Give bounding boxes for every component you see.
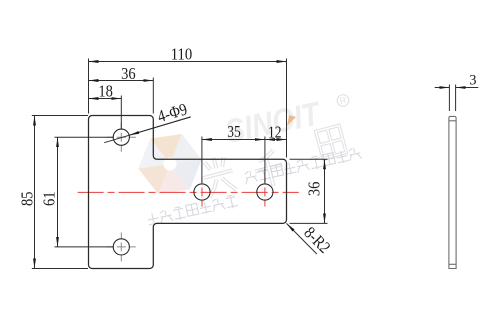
dimension 3 side view: [435, 85, 479, 112]
dimension 36 top: [89, 78, 154, 114]
watermark logo orange accent: [287, 115, 296, 126]
svg-text:61: 61: [40, 192, 59, 207]
watermark registered mark: [336, 94, 350, 108]
red crosshair hole right-1: [201, 178, 203, 207]
dimension 85: [32, 116, 88, 269]
grey crosshair hole top-left: [107, 123, 136, 152]
red crosshair hole right-2: [264, 178, 266, 207]
hole right-1: [194, 184, 210, 200]
svg-text:4-Φ9: 4-Φ9: [155, 99, 189, 126]
watermark slogan small text part 1 (pseudo-glyph strokes): [146, 195, 238, 227]
hole top-left: [113, 129, 129, 145]
watermark chinese char xing (outlined strokes): [199, 154, 238, 198]
watermark slogan small text part 2 (pseudo-glyph strokes): [243, 147, 361, 185]
svg-text:36: 36: [121, 64, 136, 83]
svg-text:110: 110: [171, 44, 193, 63]
dimension 61: [55, 137, 114, 247]
leader 4-phi9: [104, 117, 191, 143]
watermark chinese char tian (outlined strokes): [316, 125, 346, 158]
svg-text:8-R2: 8-R2: [300, 223, 334, 257]
dimension 35: [202, 137, 265, 184]
dimension 18: [89, 96, 122, 129]
watermark logo pinwheel: [134, 132, 205, 196]
svg-text:R: R: [339, 95, 348, 106]
dimension 36 right: [290, 159, 328, 223]
svg-text:12: 12: [268, 123, 282, 142]
dimension 12: [265, 139, 287, 141]
plate outline: [89, 116, 287, 269]
svg-text:35: 35: [227, 122, 241, 141]
watermark big text SINOIT: [222, 94, 325, 150]
dimension 110: [89, 59, 287, 158]
svg-text:3: 3: [469, 72, 476, 88]
side view plate: [449, 116, 456, 268]
grey crosshair hole bottom-left: [107, 232, 136, 261]
leader 8-R2: [287, 223, 317, 254]
svg-text:36: 36: [305, 182, 324, 197]
svg-text:18: 18: [98, 81, 113, 100]
hole right-2: [257, 184, 273, 200]
red centerline: [78, 191, 299, 193]
svg-text:85: 85: [17, 192, 36, 207]
hole bottom-left: [113, 239, 129, 255]
watermark chinese char qian (outlined strokes): [251, 149, 287, 190]
